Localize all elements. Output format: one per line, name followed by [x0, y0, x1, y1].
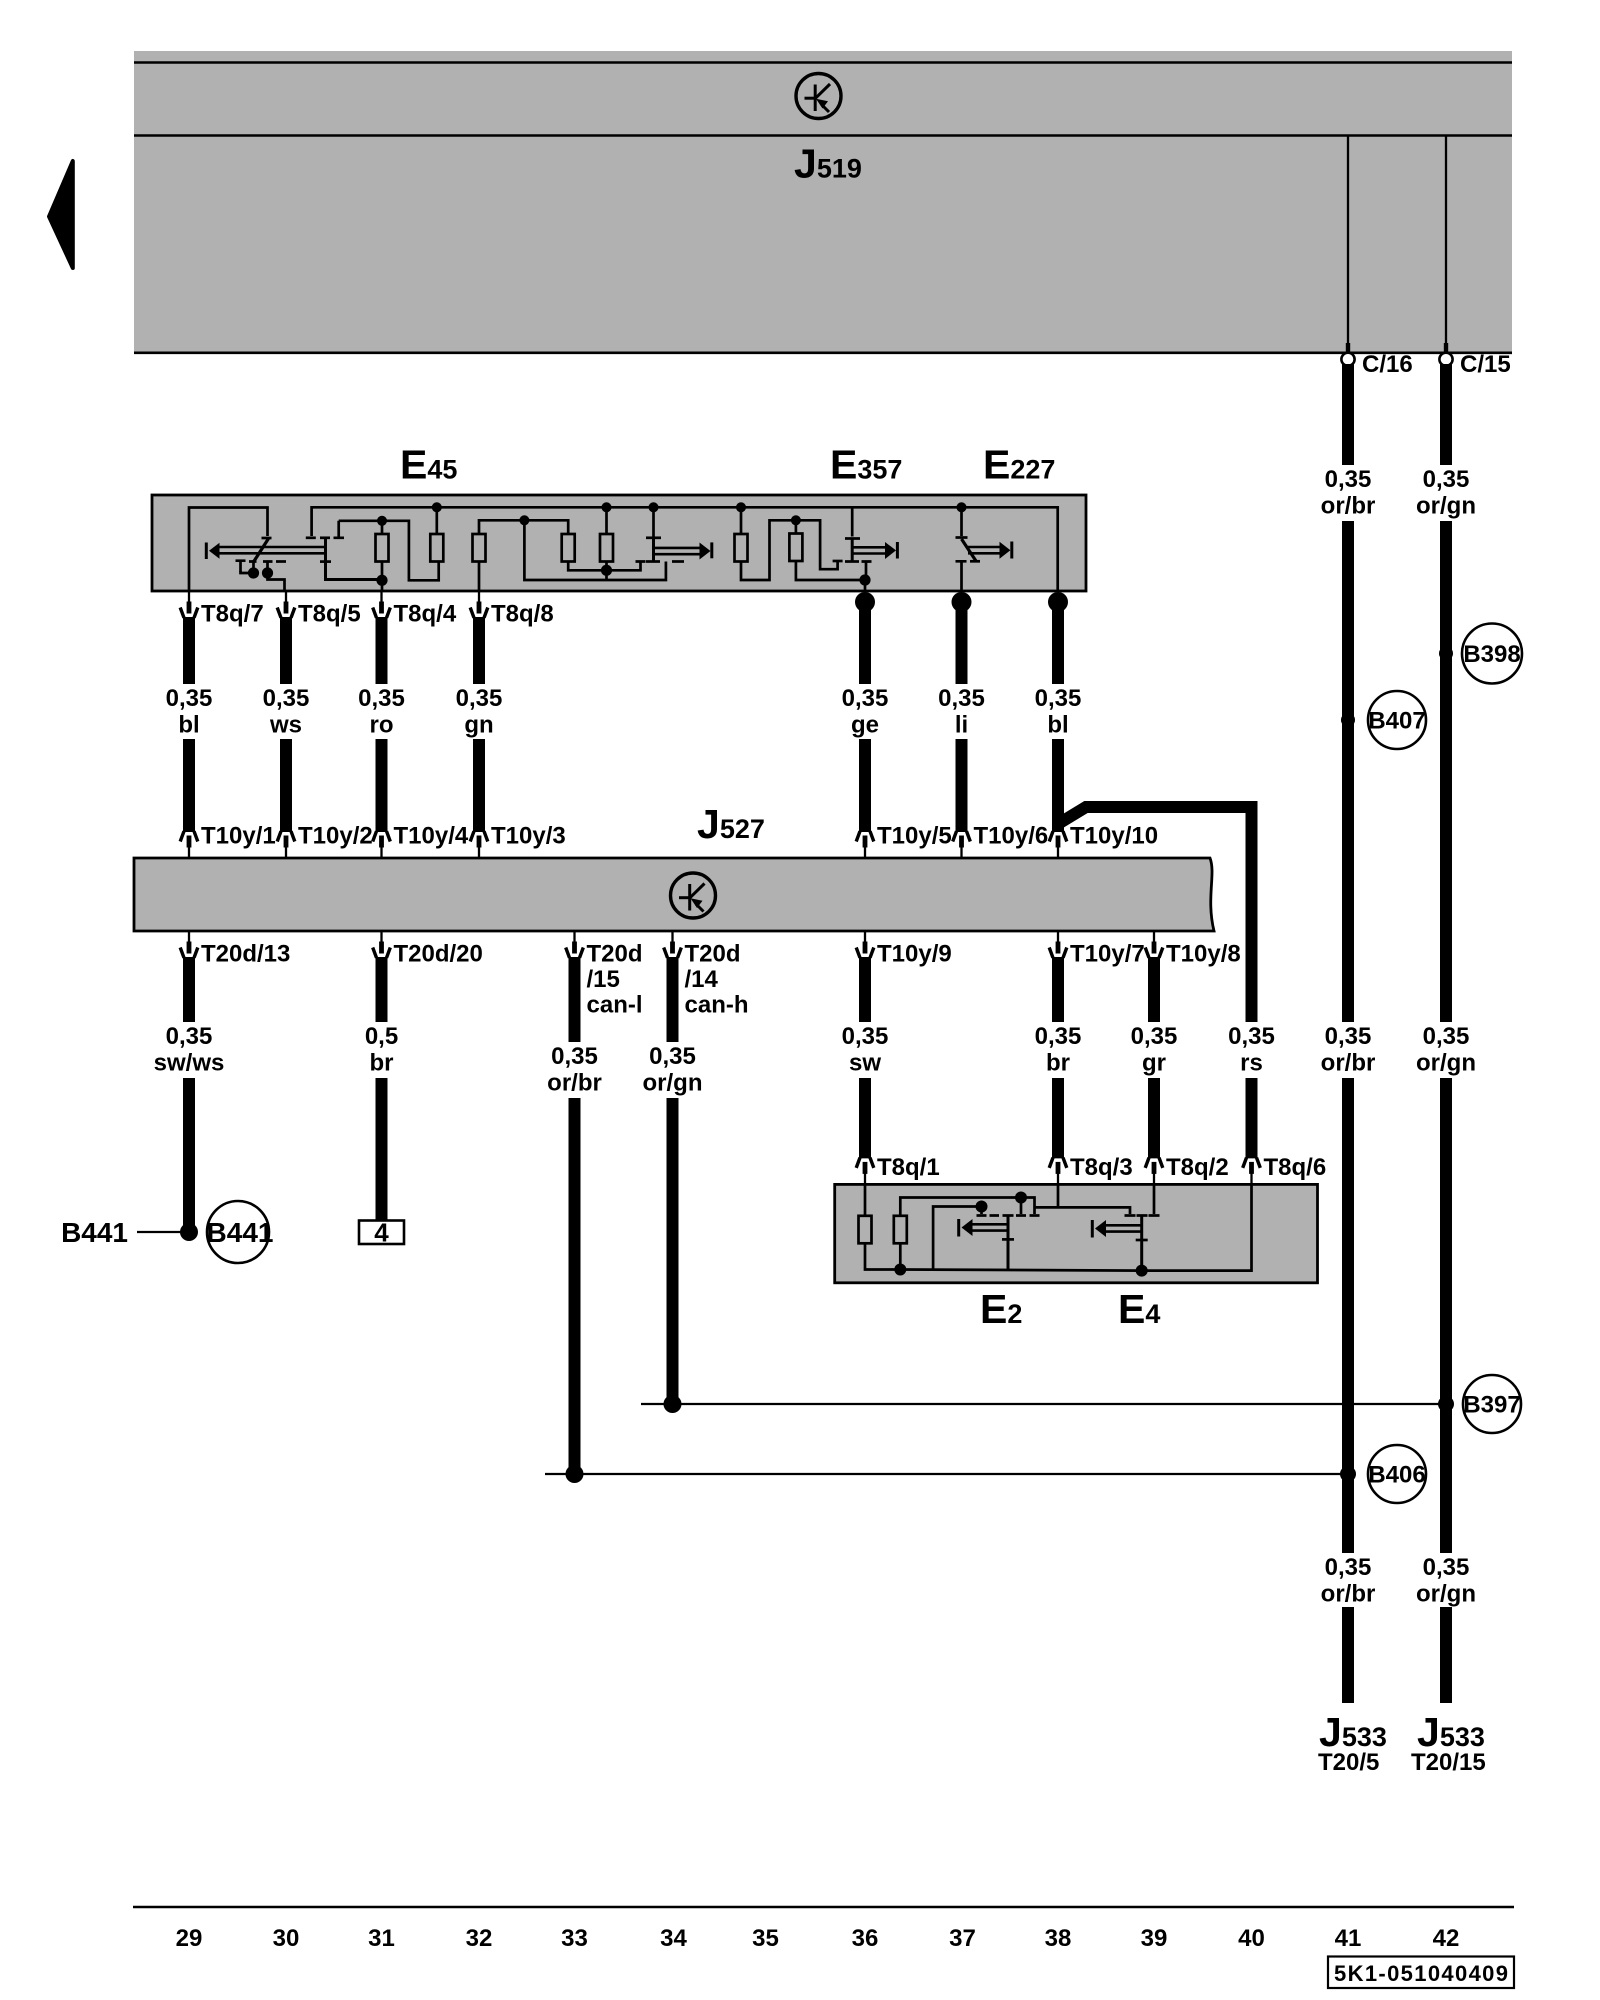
- svg-text:T10y/4: T10y/4: [394, 823, 469, 850]
- wire 0,35 or/gn (C/15) segment 1: [1440, 364, 1452, 465]
- switch E45 position arrow double shaft: [219, 546, 326, 549]
- wire 0,35 li upper segment: [956, 602, 968, 684]
- wire: E45 sense line left: [339, 521, 439, 581]
- pin T20d/15 can-l connector: [566, 931, 584, 958]
- svg-text:T10y/8: T10y/8: [1166, 941, 1241, 968]
- E2 gate dash: [990, 1214, 1000, 1217]
- wire 0,35 ws upper segment: [280, 617, 292, 684]
- wire: T8q/3 lead: [1035, 1184, 1131, 1214]
- wire 0,35 or/gn segment 2: [1440, 521, 1452, 1022]
- actuator M2 gate feed: [652, 507, 655, 536]
- wire 0,35 br upper segment: [1052, 957, 1064, 1022]
- wire: R1 top stub: [381, 521, 384, 535]
- actuator M1 lower cross tick: [320, 560, 331, 563]
- svg-text:/14: /14: [685, 966, 719, 993]
- ground terminal 4 symbol: [359, 1221, 404, 1245]
- switch E45 contact dash: [276, 560, 286, 563]
- actuator M2 arrowhead: [700, 543, 711, 560]
- svg-text:0,35: 0,35: [1035, 1023, 1082, 1050]
- wire: R2 top stub: [435, 507, 438, 534]
- pin T8q/8 connector: [470, 591, 488, 618]
- junction dot B398 on or/gn: [1439, 647, 1453, 661]
- pin T8q/7 connector: [180, 591, 198, 618]
- svg-text:0,5: 0,5: [365, 1023, 398, 1050]
- svg-text:T8q/1: T8q/1: [877, 1154, 940, 1181]
- connection circle B397: [1463, 1375, 1521, 1433]
- wire 0,35 or/br segment 4: [1342, 1607, 1354, 1703]
- switch module E45/E357/E227 box: [152, 495, 1086, 591]
- actuator E2 arrow tip bar: [957, 1219, 960, 1237]
- svg-text:T20d: T20d: [587, 941, 643, 968]
- actuator M2 bottom left tick: [607, 562, 646, 571]
- svg-text:B441: B441: [207, 1217, 274, 1248]
- actuator M2 bottom plate tick: [646, 560, 660, 563]
- actuator E357 top tick: [845, 537, 860, 540]
- svg-text:B398: B398: [1463, 641, 1520, 668]
- svg-text:or/br: or/br: [1321, 493, 1376, 520]
- wire: R7 top stub: [795, 520, 798, 534]
- junction dot ground rail at E4: [1136, 1265, 1148, 1277]
- wire: T8q/1 lead to resistor R8: [864, 1184, 867, 1216]
- wire: R6 top stub: [740, 507, 743, 534]
- svg-text:0,35: 0,35: [1325, 1554, 1372, 1581]
- svg-text:T10y/6: T10y/6: [974, 823, 1049, 850]
- ground designation circle B441: [207, 1201, 269, 1263]
- actuator M2 plate bar: [652, 538, 655, 562]
- wire 0,35 bl upper segment: [183, 617, 195, 684]
- svg-text:gr: gr: [1142, 1050, 1166, 1077]
- svg-text:0,35: 0,35: [263, 685, 310, 712]
- svg-text:T20/15: T20/15: [1411, 1749, 1486, 1776]
- wire 0,5 br upper segment: [376, 957, 388, 1022]
- page navigation arrow (current track pointer): [49, 161, 73, 268]
- switch E227 arrow tip bar: [1010, 542, 1013, 559]
- pin T10y/1 connector: [180, 831, 198, 858]
- junction dot on sense line 2: [519, 515, 529, 525]
- actuator E357 arrow tip bar: [896, 542, 899, 559]
- switch E227 bottom tick with stub: [956, 561, 967, 591]
- junction dot rail over R5: [602, 502, 612, 512]
- actuator E4 cross tick: [1136, 1239, 1148, 1242]
- svg-text:or/br: or/br: [1321, 1050, 1376, 1077]
- svg-text:41: 41: [1335, 1925, 1362, 1952]
- wire: J519 internal lead to pin C/16: [1347, 137, 1349, 345]
- wire: T8q/6 internal lead: [1250, 1183, 1253, 1186]
- wire 0,35 br lower segment: [1052, 1078, 1064, 1158]
- junction dot wire end at B441: [180, 1223, 198, 1241]
- junction dot E2 gate feed: [1015, 1192, 1027, 1204]
- svg-text:0,35: 0,35: [842, 1023, 889, 1050]
- wire 0,35 or/br (C/16) segment 1: [1342, 364, 1354, 465]
- junction dot B406 on or/br: [1340, 1466, 1356, 1482]
- junction dot li wire at E45 edge: [952, 592, 972, 612]
- wire: J519 band bottom border: [134, 351, 1512, 354]
- wire: E2 gate dot stub: [1020, 1198, 1023, 1215]
- actuator E357 bottom dash with drop to ge: [862, 562, 872, 581]
- junction dot rail over actuator M2: [649, 502, 659, 512]
- svg-text:0,35: 0,35: [1325, 1023, 1372, 1050]
- resistor R8: [859, 1216, 872, 1244]
- pin T10y/7 connector: [1049, 931, 1067, 958]
- pin C/15 plug connector: [1439, 343, 1452, 366]
- pin T20d/14 can-h connector: [664, 931, 682, 958]
- wire 0,35 sw/ws lower segment: [183, 1078, 195, 1226]
- svg-text:0,35: 0,35: [166, 1023, 213, 1050]
- wire 0,35 ws lower segment: [280, 739, 292, 832]
- switch E227 top tick: [956, 536, 968, 539]
- svg-text:T8q/5: T8q/5: [298, 601, 361, 628]
- svg-text:T10y/1: T10y/1: [201, 823, 276, 850]
- wire: R9 bottom stub: [899, 1243, 902, 1270]
- E2 gate tick right a: [1016, 1214, 1026, 1217]
- actuator E357 arrowhead: [885, 542, 896, 559]
- pin C/16 plug connector: [1341, 343, 1354, 366]
- actuator M1 gate feed tick: [306, 536, 316, 539]
- pin T10y/3 connector: [470, 831, 488, 858]
- E2 gate tick left: [977, 1214, 987, 1217]
- svg-text:0,35: 0,35: [938, 685, 985, 712]
- svg-text:36: 36: [852, 1925, 879, 1952]
- pin T8q/5 connector: [277, 591, 295, 618]
- junction dot bl wire at E45 edge: [1048, 592, 1068, 612]
- wire 0,35 ro lower segment: [376, 739, 388, 832]
- connection circle B407: [1368, 691, 1426, 749]
- junction dot rail over E227: [957, 502, 967, 512]
- svg-text:/15: /15: [587, 966, 620, 993]
- E4 gate tick left: [1125, 1214, 1136, 1217]
- actuator E357 gate feed from rail: [851, 507, 854, 536]
- svg-text:or/br: or/br: [547, 1070, 602, 1097]
- pin T10y/9 connector: [856, 931, 874, 958]
- E4 gate tick right: [1149, 1214, 1160, 1217]
- actuator M2 bottom dash: [672, 560, 684, 563]
- wire: R5 bottom stub: [605, 561, 608, 580]
- junction dot rail over R2: [432, 502, 442, 512]
- svg-text:or/br: or/br: [1321, 1581, 1376, 1608]
- svg-text:B406: B406: [1368, 1462, 1425, 1489]
- current track scale line: [133, 1906, 1514, 1909]
- svg-text:T8q/7: T8q/7: [201, 601, 264, 628]
- pin T10y/8 connector: [1145, 931, 1163, 958]
- svg-text:34: 34: [660, 1925, 687, 1952]
- control unit J527 box (torn right edge): [134, 858, 1214, 931]
- svg-text:T10y/7: T10y/7: [1070, 941, 1145, 968]
- junction dot can-h at B397 line: [664, 1395, 682, 1413]
- pin T10y/2 connector: [277, 831, 295, 858]
- svg-text:B441: B441: [61, 1217, 128, 1248]
- wire: T8q/2 lead: [1153, 1184, 1156, 1214]
- junction dot under resistor R5: [601, 565, 612, 576]
- svg-text:0,35: 0,35: [1423, 1023, 1470, 1050]
- junction dot B407 on or/br: [1341, 713, 1355, 727]
- resistor R5: [600, 534, 613, 562]
- actuator E357 bottom left tick: [833, 560, 843, 563]
- actuator E357 plate bar: [851, 539, 854, 562]
- svg-text:T20/5: T20/5: [1318, 1749, 1379, 1776]
- wire 0,35 li lower segment: [956, 739, 968, 832]
- wire rs branch diagonal from bl wire: [1058, 807, 1252, 1022]
- svg-text:T10y/3: T10y/3: [491, 823, 566, 850]
- actuator M2 top tick: [646, 536, 661, 539]
- svg-text:can-l: can-l: [587, 992, 643, 1019]
- svg-text:C/16: C/16: [1362, 351, 1413, 378]
- wire: R7 bottom to ge output junction: [796, 561, 865, 581]
- wire: E45 pin T8q/7 internal lead: [189, 508, 268, 592]
- junction dot under resistor R1: [376, 575, 387, 586]
- svg-text:0,35: 0,35: [456, 685, 503, 712]
- wire 0,35 gr lower segment: [1148, 1078, 1160, 1158]
- svg-text:T8q/6: T8q/6: [1264, 1154, 1327, 1181]
- svg-text:39: 39: [1141, 1925, 1168, 1952]
- wire 0,35 ge upper segment: [859, 602, 871, 684]
- actuator M1 plate bar: [326, 538, 383, 580]
- resistor R9: [894, 1216, 907, 1244]
- switch E45 contact tick c: [263, 562, 273, 573]
- pin T10y/6 connector: [953, 831, 971, 858]
- switch E227 arrowhead: [1000, 542, 1011, 559]
- wire 0,35 bl lower segment: [183, 739, 195, 832]
- wire: R9 top feed line to E2 gate: [900, 1198, 1034, 1217]
- connection circle B398: [1462, 624, 1522, 684]
- wire 0,35 or/br can-l upper segment: [569, 957, 581, 1042]
- wire: J519 band inner bus line: [134, 61, 1512, 64]
- svg-text:bl: bl: [178, 712, 199, 739]
- resistor R6: [735, 534, 748, 562]
- svg-text:T8q/2: T8q/2: [1166, 1154, 1229, 1181]
- junction dot rail over R6: [736, 502, 746, 512]
- wire: contact tick a to junction: [241, 571, 254, 573]
- wire 0,5 br lower segment: [376, 1078, 388, 1220]
- resistor R2: [430, 534, 443, 562]
- pin T8q/4 connector: [373, 591, 391, 618]
- svg-text:or/gn: or/gn: [1416, 1581, 1476, 1608]
- switch E45 contact tick a: [236, 561, 246, 572]
- connection circle B406: [1368, 1445, 1426, 1503]
- wire: R6 bottom loop to E357 sense: [741, 520, 838, 580]
- wire 0,35 or/br segment 3: [1342, 1078, 1354, 1553]
- wire: E45 internal top rail: [312, 507, 1058, 591]
- svg-text:0,35: 0,35: [649, 1043, 696, 1070]
- wire: connection line B406 (can-l to or/br): [545, 1473, 1348, 1475]
- svg-text:sw: sw: [849, 1050, 881, 1077]
- actuator E357 arrow double shaft: [852, 546, 886, 549]
- wire: J519 internal lead to pin C/15: [1445, 137, 1447, 345]
- svg-text:0,35: 0,35: [551, 1043, 598, 1070]
- pin T20d/20 connector: [373, 931, 391, 958]
- wire: R8 bottom to ground rail: [865, 1243, 900, 1270]
- pin T8q/3 connector: [1049, 1158, 1067, 1185]
- svg-text:35: 35: [752, 1925, 779, 1952]
- svg-text:40: 40: [1238, 1925, 1265, 1952]
- junction dot ge wire at E45 edge: [855, 592, 875, 612]
- svg-text:bl: bl: [1047, 712, 1068, 739]
- junction dot on switch E45 contact: [248, 567, 259, 578]
- svg-text:42: 42: [1433, 1925, 1460, 1952]
- actuator E4 arrow double shaft: [1106, 1224, 1142, 1227]
- svg-text:ro: ro: [370, 712, 394, 739]
- wire 0,35 gn upper segment: [473, 617, 485, 684]
- pin T20d/13 connector: [180, 931, 198, 958]
- light switch module E2/E4 box: [835, 1184, 1318, 1282]
- actuator E2 arrow double shaft: [972, 1223, 1008, 1226]
- svg-text:T20d/13: T20d/13: [201, 941, 290, 968]
- wire: E45 sense line to resistor R3: [479, 520, 568, 534]
- actuator E4 arrowhead: [1095, 1220, 1106, 1237]
- svg-text:30: 30: [273, 1925, 300, 1952]
- svg-text:li: li: [955, 712, 968, 739]
- switch E45 pivot contact tick: [262, 537, 272, 540]
- wire 0,35 gr upper segment: [1148, 957, 1160, 1022]
- wire 0,35 gn lower segment: [473, 739, 485, 832]
- resistor R1: [376, 534, 389, 562]
- junction dot on switch E45 contact output: [262, 567, 273, 578]
- wire: R1 bottom to pin T8q/4: [381, 561, 384, 591]
- svg-text:ge: ge: [851, 712, 879, 739]
- pin T8q/1 connector: [856, 1158, 874, 1185]
- svg-text:T8q/8: T8q/8: [491, 601, 554, 628]
- svg-text:0,35: 0,35: [1131, 1023, 1178, 1050]
- resistor R3: [473, 534, 486, 562]
- actuator M1 plate top tick: [320, 536, 330, 539]
- switch E45 left-pointing position arrowhead: [209, 543, 220, 559]
- svg-text:B407: B407: [1368, 708, 1425, 735]
- svg-text:B397: B397: [1463, 1392, 1520, 1419]
- junction dot ge output: [859, 574, 870, 585]
- pin T10y/10 connector: [1049, 831, 1067, 858]
- wire: J519 band lower bus line: [134, 134, 1512, 137]
- wire: sense junction drop to lower link: [524, 520, 666, 580]
- wire 0,35 sw/ws upper segment: [183, 957, 195, 1022]
- wire: ground rail to left gate feed of E2: [933, 1207, 981, 1270]
- wire 0,35 or/gn can-h lower segment: [667, 1098, 679, 1404]
- svg-text:38: 38: [1045, 1925, 1072, 1952]
- switch E227 feed: [960, 507, 963, 536]
- svg-text:rs: rs: [1240, 1050, 1263, 1077]
- wire: R5 top stub: [605, 507, 608, 534]
- pin T10y/4 connector: [373, 831, 391, 858]
- switch E45 lever: [254, 539, 269, 563]
- control unit symbol K in J527: [671, 873, 716, 918]
- svg-text:4: 4: [374, 1218, 389, 1248]
- wire: connection line B397 (can-h to or/gn): [641, 1403, 1446, 1405]
- pin T10y/5 connector: [856, 831, 874, 858]
- svg-text:br: br: [370, 1050, 394, 1077]
- actuator M2 arrow tip bar: [710, 542, 713, 558]
- E2 gate tick right b: [1030, 1214, 1040, 1217]
- svg-text:0,35: 0,35: [166, 685, 213, 712]
- actuator M1 link tick to sense line: [334, 521, 345, 538]
- svg-text:0,35: 0,35: [842, 685, 889, 712]
- wire: R3 bottom to pin T8q/8: [478, 561, 481, 591]
- svg-text:37: 37: [949, 1925, 976, 1952]
- resistor R7: [789, 534, 802, 562]
- svg-text:or/gn: or/gn: [643, 1070, 703, 1097]
- junction dot above resistor R1: [377, 516, 387, 526]
- svg-text:sw/ws: sw/ws: [154, 1050, 225, 1077]
- svg-text:ws: ws: [269, 712, 302, 739]
- actuator E2 cross tick: [1002, 1238, 1014, 1241]
- wire 0,35 ge lower segment: [859, 739, 871, 832]
- svg-text:T10y/5: T10y/5: [877, 823, 952, 850]
- svg-text:T8q/4: T8q/4: [394, 601, 457, 628]
- svg-text:T20d/20: T20d/20: [394, 941, 483, 968]
- pin T8q/6 connector: [1243, 1158, 1261, 1185]
- wire 0,35 sw lower segment: [859, 1078, 871, 1158]
- wire: R4 bottom link: [568, 561, 606, 570]
- wire 0,35 ro upper segment: [376, 617, 388, 684]
- actuator E357 bottom plate tick: [845, 560, 859, 563]
- wire 0,35 or/br can-l lower segment: [569, 1098, 581, 1474]
- svg-text:29: 29: [176, 1925, 203, 1952]
- actuator E4 plate top tick: [1137, 1214, 1148, 1217]
- wire: stub to ground label B441: [137, 1231, 189, 1233]
- wire: switch output to pin T8q/5: [268, 573, 285, 591]
- wire 0,35 bl lower segment: [1052, 739, 1064, 832]
- switch E227 landing tick: [970, 560, 980, 563]
- wire: E2 left gate stub: [980, 1207, 983, 1215]
- switch E45 contact tick b: [249, 562, 257, 573]
- junction dot over R7: [791, 515, 801, 525]
- pin T8q/2 connector: [1145, 1158, 1163, 1185]
- svg-text:0,35: 0,35: [358, 685, 405, 712]
- svg-text:0,35: 0,35: [1228, 1023, 1275, 1050]
- switch E227 lever: [962, 539, 977, 561]
- junction dot can-l at B406 line: [566, 1465, 584, 1483]
- svg-text:or/gn: or/gn: [1416, 493, 1476, 520]
- svg-text:0,35: 0,35: [1423, 1554, 1470, 1581]
- wire 0,35 or/br segment 2: [1342, 521, 1354, 1022]
- actuator E2 plate top tick: [1003, 1214, 1014, 1217]
- svg-text:T10y/10: T10y/10: [1070, 823, 1158, 850]
- svg-text:32: 32: [466, 1925, 493, 1952]
- svg-text:T8q/3: T8q/3: [1070, 1154, 1133, 1181]
- svg-text:can-h: can-h: [685, 992, 749, 1019]
- svg-text:5K1-051040409: 5K1-051040409: [1334, 1961, 1508, 1986]
- actuator M2 right-pointing arrow double shaft: [654, 547, 702, 550]
- svg-text:33: 33: [561, 1925, 588, 1952]
- wire: ground rail right segment to T8q/6: [900, 1184, 1251, 1270]
- control unit J519 (onboard supply) band: [134, 51, 1512, 354]
- svg-text:T20d: T20d: [685, 941, 741, 968]
- actuator E2 arrowhead: [962, 1219, 973, 1236]
- junction dot ground rail at R9: [894, 1264, 906, 1276]
- wire: ge output to box edge: [864, 580, 867, 591]
- control unit symbol K in J519: [796, 74, 841, 119]
- actuator E2 plate bar: [1007, 1216, 1010, 1270]
- svg-text:0,35: 0,35: [1325, 466, 1372, 493]
- junction dot E2 left gate feed: [976, 1201, 988, 1213]
- svg-text:0,35: 0,35: [1035, 685, 1082, 712]
- actuator E4 plate bar: [1140, 1216, 1143, 1271]
- svg-text:31: 31: [368, 1925, 395, 1952]
- wire 0,35 bl from E227 upper segment: [1052, 602, 1064, 684]
- resistor R4: [562, 534, 575, 562]
- junction dot B397 on or/gn: [1438, 1396, 1454, 1412]
- svg-text:0,35: 0,35: [1423, 466, 1470, 493]
- actuator E4 arrow tip bar: [1091, 1220, 1094, 1238]
- wire 0,35 or/gn can-h upper segment: [667, 957, 679, 1042]
- wire 0,35 or/gn segment 4: [1440, 1607, 1452, 1703]
- wire 0,35 rs lower segment: [1246, 1078, 1258, 1158]
- diagram number box 5K1-051040409: [1328, 1957, 1514, 1989]
- switch E227 arrow double shaft: [968, 546, 1000, 549]
- switch E45 left-pointing position arrow tip bar: [205, 543, 208, 560]
- wire 0,35 sw upper segment: [859, 957, 871, 1022]
- svg-text:or/gn: or/gn: [1416, 1050, 1476, 1077]
- svg-text:gn: gn: [464, 712, 493, 739]
- svg-text:T10y/2: T10y/2: [298, 823, 373, 850]
- wire 0,35 or/gn segment 3: [1440, 1078, 1452, 1553]
